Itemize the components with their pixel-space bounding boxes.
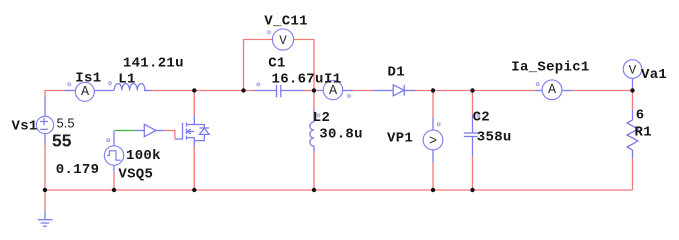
svg-text:30.8u: 30.8u [319,127,363,143]
svg-text:55: 55 [52,131,72,151]
svg-text:VP1: VP1 [387,131,413,147]
svg-text:V: V [279,34,287,48]
svg-text:A: A [548,83,557,98]
svg-text:L1: L1 [118,71,135,87]
svg-text:5.5: 5.5 [57,115,75,130]
svg-text:C2: C2 [473,110,490,126]
svg-text:L2: L2 [313,110,330,126]
svg-text:16.67u: 16.67u [272,72,324,88]
svg-text:A: A [81,85,90,100]
svg-text:Is1: Is1 [75,71,101,87]
svg-text:V: V [629,63,637,77]
svg-text:R1: R1 [635,125,652,141]
svg-text:D1: D1 [388,64,405,80]
svg-text:141.21u: 141.21u [123,55,184,71]
svg-text:358u: 358u [477,129,512,145]
svg-text:>: > [429,135,437,150]
svg-text:100k: 100k [126,148,161,164]
svg-text:6: 6 [636,108,645,124]
svg-text:0.179: 0.179 [56,162,100,178]
svg-text:I1: I1 [324,72,341,88]
svg-text:VSQ5: VSQ5 [118,166,153,182]
svg-text:Va1: Va1 [641,67,667,83]
svg-text:Ia_Sepic1: Ia_Sepic1 [511,60,589,76]
svg-text:V_C11: V_C11 [264,14,308,30]
svg-text:Vs1: Vs1 [12,119,38,135]
svg-text:C1: C1 [268,55,285,71]
